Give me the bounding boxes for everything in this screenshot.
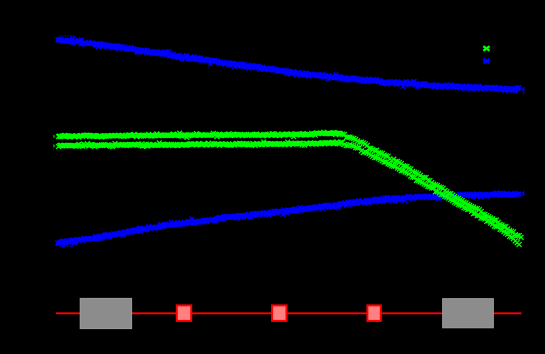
legend blue marker (483, 58, 491, 64)
left dipole (gray box) (80, 298, 131, 328)
lower green curve (marker band) (56, 140, 521, 247)
right dipole (gray box) (443, 299, 494, 328)
lower green curve left clip fragment (53, 144, 55, 150)
top blue curve right clip fragment (523, 87, 526, 94)
bottom blue curve (marker band) (55, 191, 521, 246)
quadrupole 1 (red square) (177, 305, 191, 321)
bottom blue curve start fragment (60, 246, 73, 248)
upper green curve (marker band) (56, 130, 523, 240)
quadrupole 2 (red square) (272, 305, 286, 321)
legend green x marker (483, 46, 489, 51)
bottom blue curve right clip fragment (523, 191, 526, 196)
lattice beam line (red) (56, 312, 522, 314)
quadrupole 3 (red square) (367, 305, 380, 321)
top blue curve start fragment (60, 35, 74, 37)
top blue curve (marker band) (55, 37, 521, 94)
upper green curve left clip fragment (53, 134, 55, 140)
